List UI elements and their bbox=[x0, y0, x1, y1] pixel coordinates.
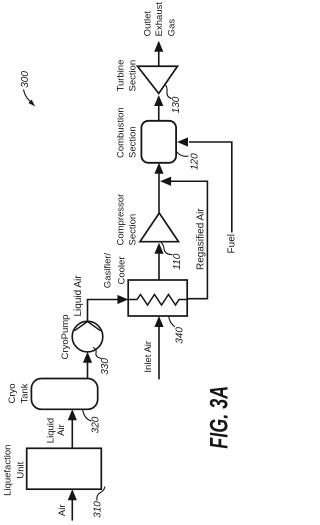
svg-text:Liquefaction: Liquefaction bbox=[2, 445, 13, 496]
svg-text:Section: Section bbox=[128, 214, 139, 246]
svg-text:340: 340 bbox=[175, 327, 186, 344]
svg-text:Liquid Air: Liquid Air bbox=[73, 275, 84, 317]
svg-text:Combustion: Combustion bbox=[116, 107, 127, 158]
svg-text:FIG. 3A: FIG. 3A bbox=[204, 386, 233, 449]
svg-text:320: 320 bbox=[91, 416, 102, 433]
svg-text:Gas: Gas bbox=[167, 19, 178, 37]
svg-text:Inlet Air: Inlet Air bbox=[143, 341, 154, 373]
svg-text:Liquid: Liquid bbox=[46, 418, 57, 443]
svg-text:Air: Air bbox=[56, 424, 67, 436]
svg-text:Outlet: Outlet bbox=[143, 11, 154, 37]
svg-text:Turbine: Turbine bbox=[116, 60, 127, 92]
svg-text:130: 130 bbox=[171, 96, 182, 113]
svg-text:Regasified Air: Regasified Air bbox=[195, 208, 206, 270]
svg-text:310: 310 bbox=[93, 501, 104, 518]
svg-text:120: 120 bbox=[190, 153, 201, 170]
svg-text:Exhaust: Exhaust bbox=[154, 2, 165, 37]
svg-text:Section: Section bbox=[128, 126, 139, 158]
svg-text:300: 300 bbox=[20, 71, 31, 88]
svg-text:330: 330 bbox=[100, 358, 111, 375]
svg-text:Gasifier/: Gasifier/ bbox=[103, 252, 114, 288]
svg-text:Air: Air bbox=[57, 504, 68, 516]
svg-text:Section: Section bbox=[128, 60, 139, 92]
svg-text:Compressor: Compressor bbox=[116, 194, 127, 246]
svg-text:110: 110 bbox=[172, 253, 183, 269]
svg-text:Tank: Tank bbox=[19, 383, 30, 403]
svg-text:Cooler: Cooler bbox=[116, 257, 127, 285]
svg-text:Cryo: Cryo bbox=[7, 383, 18, 403]
svg-text:Unit: Unit bbox=[16, 461, 27, 478]
svg-text:Fuel: Fuel bbox=[227, 234, 238, 253]
svg-text:CryoPump: CryoPump bbox=[60, 315, 71, 360]
